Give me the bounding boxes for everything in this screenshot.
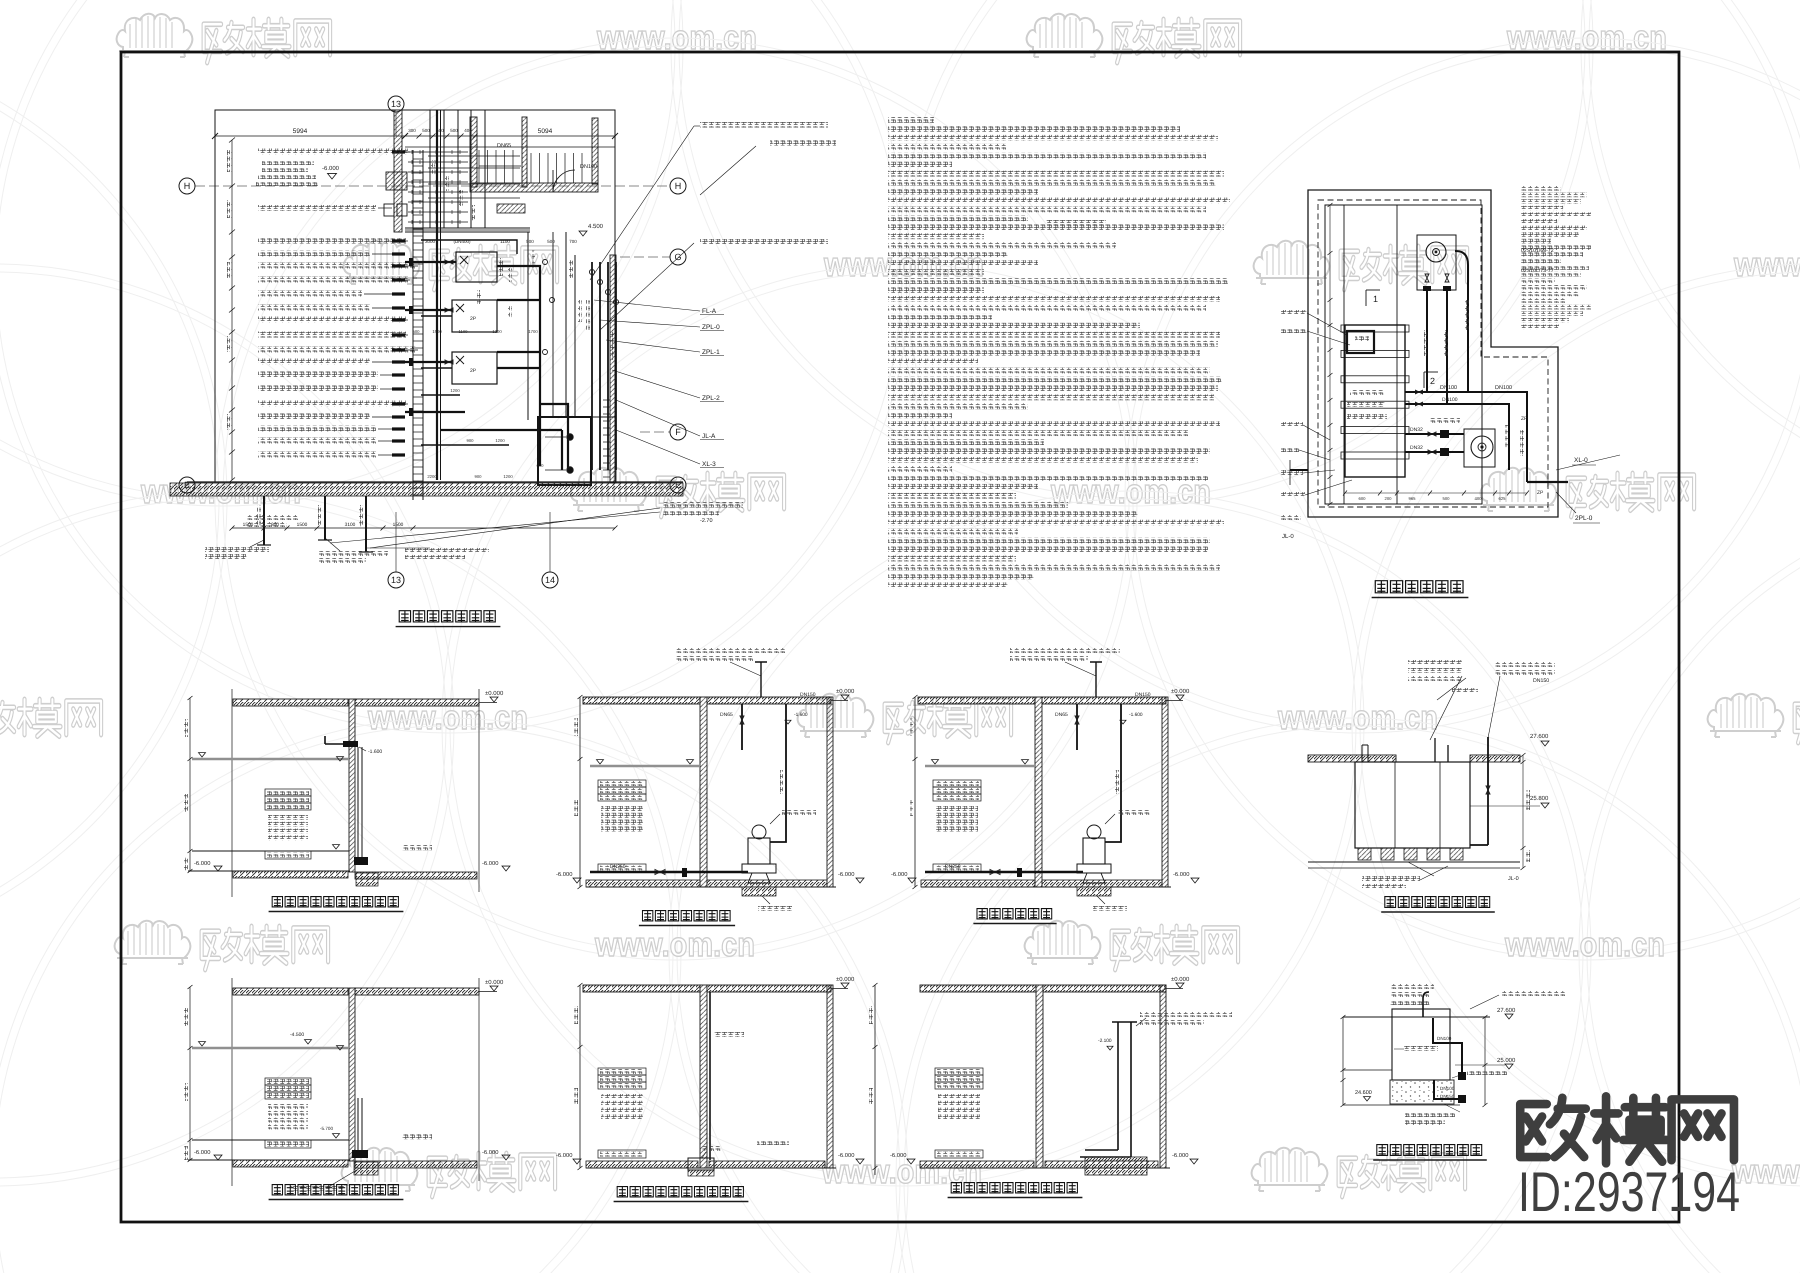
- svg-text:XL-0: XL-0: [1574, 457, 1588, 464]
- dim chain: [189, 987, 191, 1160]
- capacity text: [601, 1101, 643, 1106]
- notes line: [888, 215, 1028, 221]
- leader note: [1390, 984, 1434, 989]
- capacity text: [601, 1114, 643, 1119]
- leader note: [675, 648, 785, 653]
- note vent: [770, 140, 836, 146]
- svg-text:5094: 5094: [538, 128, 553, 135]
- leader note: [1408, 660, 1462, 665]
- water level label: [265, 789, 311, 796]
- label 最低有效水位: [1404, 1046, 1438, 1051]
- pump: [748, 838, 770, 864]
- note DN100: [318, 551, 388, 556]
- top slab: [233, 699, 348, 706]
- svg-text:-4.500: -4.500: [290, 1032, 304, 1038]
- notes line: [888, 493, 1016, 499]
- water level label: [935, 1075, 983, 1082]
- ground hatch: [921, 880, 1035, 887]
- notes line: [888, 529, 1018, 535]
- capacity text: [936, 813, 978, 818]
- additional pipes: [440, 368, 562, 470]
- notes line: [888, 502, 1068, 508]
- label DN32 vert: [1424, 330, 1428, 356]
- riser pipes top: [429, 110, 431, 228]
- wall pad: [386, 172, 407, 190]
- sump room top: [538, 416, 615, 418]
- section title: [951, 1183, 961, 1193]
- grid bubble 13 bottom: [388, 572, 404, 588]
- svg-text:-6.000: -6.000: [556, 1152, 572, 1159]
- top slab: [583, 697, 700, 704]
- pipe label: [258, 251, 370, 257]
- water level label: [265, 796, 311, 803]
- vent tank thick box: [1347, 331, 1374, 353]
- notes line: [888, 448, 1210, 454]
- pipe label: [258, 347, 416, 353]
- east wall: [610, 255, 616, 483]
- ground line: [586, 886, 836, 888]
- notes line: [888, 117, 934, 123]
- dim right: [1484, 1017, 1486, 1105]
- notes line: [888, 224, 1224, 230]
- dim right: [1522, 755, 1524, 868]
- svg-text:-6.000: -6.000: [482, 860, 498, 867]
- watermark logo 欧模网: [1252, 1148, 1465, 1197]
- svg-text:13: 13: [391, 575, 401, 585]
- floor drain 2: [567, 467, 573, 473]
- svg-text:27.600: 27.600: [1530, 733, 1549, 740]
- leader fan: [594, 300, 700, 311]
- label 电气桥架: [714, 1032, 744, 1037]
- water level label: [933, 794, 981, 801]
- notes line: [888, 341, 1218, 347]
- svg-text:965: 965: [1409, 496, 1417, 501]
- svg-text:±0.000: ±0.000: [1171, 688, 1190, 695]
- water line: [192, 1047, 349, 1050]
- notes line: [888, 135, 1218, 141]
- watermark logo 欧模网: [117, 14, 330, 63]
- water level label: [598, 780, 646, 787]
- svg-text:DN100: DN100: [580, 164, 597, 170]
- section title: [642, 911, 652, 921]
- svg-text:500: 500: [450, 128, 458, 133]
- watermark logo 欧模网: [0, 694, 101, 743]
- notes line: [888, 171, 1224, 177]
- svg-text:500: 500: [413, 329, 421, 334]
- tank body: [1392, 1009, 1450, 1080]
- right wall: [1162, 697, 1168, 887]
- watermark circle: [0, 718, 908, 1273]
- big vent duct: [1080, 1022, 1131, 1157]
- title 消防水箱详图: [1375, 581, 1387, 593]
- svg-text:±0.000: ±0.000: [485, 979, 504, 986]
- svg-text:-2.70: -2.70: [700, 518, 713, 524]
- svg-text:-6.000: -6.000: [1173, 871, 1189, 878]
- svg-text:2: 2: [1430, 376, 1435, 386]
- capacity text: [268, 1111, 308, 1116]
- svg-text:JL-0: JL-0: [1282, 533, 1294, 540]
- cable tray: [709, 992, 711, 1160]
- pipe chase ladder: [412, 150, 414, 500]
- svg-text:±0.000: ±0.000: [836, 976, 855, 983]
- pipe label: [258, 332, 406, 338]
- svg-text:JL-A: JL-A: [702, 433, 716, 440]
- svg-text:DN100: DN100: [1495, 385, 1512, 391]
- notes line: [888, 582, 1008, 588]
- top slab: [920, 985, 1036, 992]
- dividing wall: [700, 985, 707, 1168]
- svg-text:1500: 1500: [432, 329, 442, 334]
- svg-text:2P: 2P: [470, 368, 477, 374]
- watermark circle: [0, 0, 910, 733]
- watermark logo 欧模网: [1708, 694, 1800, 743]
- valve: [1416, 402, 1423, 406]
- pipe label: [258, 372, 378, 378]
- notes line: [888, 278, 1228, 284]
- notes line: [888, 394, 1214, 400]
- svg-text:2PL-0: 2PL-0: [1575, 515, 1593, 522]
- section title: [272, 1185, 282, 1195]
- watermark circle: [896, 718, 1800, 1273]
- stair wall bottom: [470, 183, 598, 192]
- tank dims: [1329, 205, 1331, 504]
- notes line: [888, 484, 1038, 490]
- suction pipe and pump: [925, 871, 1083, 873]
- pump: [1083, 838, 1105, 864]
- ground line: [187, 481, 683, 483]
- svg-text:02S10L/73-77: 02S10L/73-77: [1521, 268, 1554, 274]
- grid bubble F: [670, 424, 686, 440]
- label 自动排气阀: [1117, 810, 1151, 815]
- capacity text: [268, 1124, 308, 1129]
- section title: [272, 897, 282, 907]
- tank supports: [1358, 848, 1371, 860]
- notes line: [888, 126, 1180, 132]
- site logo 欧模网 big: [1520, 1096, 1734, 1163]
- svg-text:24.600: 24.600: [1355, 1090, 1372, 1096]
- svg-text:JL-0: JL-0: [1508, 876, 1519, 882]
- right wall: [1160, 985, 1166, 1168]
- section title: [977, 909, 987, 919]
- notes line: [888, 242, 1116, 248]
- tank outlet pipes: [1527, 481, 1568, 483]
- svg-text:-1.600: -1.600: [1129, 712, 1143, 718]
- tank notes: [1521, 186, 1561, 191]
- svg-text:-6.000: -6.000: [556, 871, 572, 878]
- svg-text:-6.000: -6.000: [322, 165, 340, 172]
- notes line: [888, 377, 1222, 383]
- notes line: [888, 233, 984, 239]
- note high: [1046, 220, 1106, 226]
- notes line: [888, 144, 1006, 150]
- tank flange: [1341, 325, 1409, 332]
- svg-text:-1.600: -1.600: [794, 712, 808, 718]
- pipe label: [258, 359, 370, 365]
- svg-text:DN150: DN150: [1533, 678, 1549, 684]
- capacity text: [268, 815, 308, 820]
- room label: [402, 845, 432, 850]
- base hatch: [233, 1160, 348, 1167]
- dividing wall: [349, 699, 355, 872]
- svg-text:500: 500: [1443, 496, 1451, 501]
- capacity text: [938, 1114, 980, 1119]
- pump spec text 2: [700, 239, 828, 245]
- svg-text:1700: 1700: [528, 329, 538, 334]
- tank room inner wall: [1325, 205, 1482, 504]
- riser tag: [431, 160, 435, 176]
- svg-text:-6.000: -6.000: [838, 1152, 854, 1159]
- tank room outer wall: [1308, 190, 1558, 517]
- water level label: [598, 787, 646, 794]
- svg-text:-6.000: -6.000: [194, 860, 210, 867]
- svg-text:-6.000: -6.000: [890, 1152, 906, 1159]
- capacity text: [268, 1104, 308, 1109]
- water level label: [933, 787, 981, 794]
- notes line: [888, 269, 984, 275]
- svg-text:600: 600: [1359, 496, 1367, 501]
- riser DN150 thick: [436, 110, 438, 480]
- svg-text:900: 900: [475, 474, 483, 479]
- base line: [188, 1159, 350, 1161]
- svg-text:DN250: DN250: [610, 864, 626, 870]
- water tank: [1345, 325, 1405, 477]
- svg-text:-6.000: -6.000: [194, 1149, 210, 1156]
- side pipe DN50: [1470, 737, 1488, 845]
- note sump access: [205, 547, 269, 552]
- notes line: [888, 511, 1138, 517]
- ground line: [920, 1167, 1170, 1169]
- svg-text:700: 700: [569, 239, 577, 244]
- dim chain: [189, 698, 191, 871]
- valve: [1428, 432, 1436, 436]
- svg-text:F: F: [675, 427, 681, 437]
- svg-text:02S101/68-72: 02S101/68-72: [1521, 248, 1554, 254]
- dividing wall: [1036, 985, 1043, 1168]
- svg-text:DN65: DN65: [1055, 712, 1068, 718]
- svg-text:5994: 5994: [293, 128, 308, 135]
- watermark logo 欧模网: [115, 921, 328, 970]
- corridor pipes: [408, 151, 468, 153]
- svg-text:3000: 3000: [425, 239, 436, 244]
- watermark circle: [0, 38, 227, 960]
- notes line: [888, 314, 992, 320]
- tank flange: [1341, 401, 1409, 408]
- partition wall: [405, 231, 530, 233]
- capacity text: [268, 822, 308, 827]
- valve: [1445, 274, 1449, 282]
- svg-text:ZP: ZP: [1537, 490, 1544, 496]
- notes line: [888, 466, 952, 472]
- capacity text: [938, 1094, 980, 1099]
- drawing border frame: [121, 52, 1679, 1222]
- dim line: [579, 697, 581, 887]
- grid line H: [195, 185, 670, 187]
- svg-text:DN100: DN100: [1437, 1036, 1452, 1041]
- svg-text:±0.000: ±0.000: [1171, 976, 1190, 983]
- pipe label: [258, 305, 370, 311]
- svg-text:1100: 1100: [458, 329, 468, 334]
- notes line: [888, 189, 1038, 195]
- tank piping: [1427, 265, 1468, 404]
- capacity text: [936, 826, 978, 831]
- svg-text:1500: 1500: [393, 522, 404, 528]
- notes line: [888, 323, 1140, 329]
- svg-text:900: 900: [467, 438, 475, 443]
- water level label: [935, 1068, 983, 1075]
- pump pit: [742, 887, 776, 896]
- svg-text:25.000: 25.000: [1497, 1057, 1516, 1064]
- notes line: [888, 565, 1220, 571]
- svg-text:1100: 1100: [500, 239, 510, 244]
- suction pipe and pump: [590, 871, 748, 873]
- watermark circle: [0, 0, 683, 506]
- notes line: [888, 359, 978, 365]
- svg-text:ZP: ZP: [1521, 416, 1528, 422]
- svg-text:500: 500: [422, 128, 430, 133]
- notes line: [888, 305, 1206, 311]
- svg-text:1200: 1200: [495, 438, 505, 443]
- ground hatch: [586, 880, 700, 887]
- right wall: [827, 697, 833, 887]
- stair wall left: [470, 117, 477, 187]
- watermark logo 欧模网: [571, 468, 784, 517]
- watermark logo 欧模网: [344, 241, 557, 290]
- svg-text:300: 300: [408, 128, 416, 133]
- watermark logo 欧模网: [1025, 921, 1238, 970]
- grid line left: [231, 978, 233, 1186]
- valve: [1425, 274, 1429, 282]
- sump pit room: [538, 417, 591, 485]
- pipe label: [258, 438, 376, 444]
- leader note: [1390, 992, 1430, 997]
- label 电磁阀: [1347, 402, 1385, 407]
- notes line: [888, 403, 1028, 409]
- top slab: [233, 988, 348, 995]
- notes line: [888, 573, 1034, 579]
- svg-text:H: H: [184, 181, 191, 191]
- notes line: [888, 368, 1210, 374]
- watermark circle: [898, 0, 1800, 733]
- svg-text:-5.700: -5.700: [320, 1126, 333, 1131]
- svg-text:±0.000: ±0.000: [485, 690, 504, 697]
- water level label: [935, 1082, 983, 1089]
- note DN150: [405, 548, 489, 553]
- ground hatch band: [170, 483, 683, 496]
- svg-text:1300: 1300: [492, 329, 502, 334]
- svg-text:DN250: DN250: [945, 864, 961, 870]
- plan top dimension line: [215, 135, 615, 137]
- leader valve note: [1467, 1070, 1507, 1075]
- DN200 drain note: [663, 502, 743, 508]
- label 不上人屋面: [1430, 418, 1460, 423]
- svg-text:1200: 1200: [503, 474, 513, 479]
- note air gap: [1362, 876, 1420, 881]
- pipe label: [258, 238, 406, 244]
- ground line: [586, 1167, 836, 1169]
- capacity text: [601, 806, 643, 811]
- capacity text: [268, 1118, 308, 1123]
- svg-text:ID:2937194: ID:2937194: [1518, 1160, 1740, 1223]
- note air gap: [1405, 1112, 1455, 1117]
- title 消防水泵房详图: [399, 611, 410, 622]
- leader note: [1390, 1000, 1430, 1005]
- svg-text:27.600: 27.600: [1497, 1007, 1516, 1014]
- stair wall right: [592, 118, 598, 184]
- pipe label: [258, 149, 408, 155]
- east ladder: [603, 399, 610, 401]
- leader note: [1010, 648, 1120, 653]
- svg-text:DN100: DN100: [1440, 1086, 1455, 1091]
- grid line right: [478, 978, 480, 1181]
- top slab: [918, 697, 1035, 704]
- pipe label: [258, 401, 406, 407]
- grid line right: [478, 689, 480, 892]
- notes line: [888, 475, 1208, 481]
- ground line: [921, 886, 1171, 888]
- leader duct note: [1140, 1012, 1232, 1017]
- svg-text:G: G: [674, 252, 681, 262]
- water line: [925, 765, 1035, 768]
- svg-text:14: 14: [545, 575, 555, 585]
- tank flange: [1341, 452, 1409, 459]
- pipe label: [258, 317, 406, 323]
- pipe label: [258, 277, 408, 283]
- riser cluster: [591, 262, 593, 470]
- underground pipe drops: [263, 496, 265, 545]
- valve: [445, 308, 453, 312]
- watermark logo 欧模网: [342, 1148, 555, 1197]
- right wall: [827, 985, 833, 1168]
- water level label: [265, 1085, 311, 1092]
- grid bubble E left: [179, 477, 195, 493]
- watermark circle: [0, 264, 454, 1186]
- notes line: [888, 439, 1044, 445]
- tank room inner dashed boundary: [1318, 200, 1548, 507]
- fire pump unit 2: [452, 300, 497, 332]
- notes line: [888, 296, 1220, 302]
- grid bubble H right: [670, 178, 686, 194]
- valve: [445, 360, 453, 364]
- title 水箱2-2剖面图: [1377, 1145, 1388, 1156]
- fire pump unit 3: [452, 352, 497, 384]
- watermark circle: [1352, 264, 1800, 1186]
- reservoir info text: [262, 160, 314, 165]
- top line: [1343, 1016, 1490, 1018]
- pump spec text 1: [700, 122, 828, 128]
- pump spec leaders: [590, 126, 694, 280]
- notes line: [888, 556, 1016, 562]
- bottom dimension chain: [232, 527, 615, 529]
- water level label: [598, 794, 646, 801]
- watermark circle: [442, 264, 1364, 1186]
- base line: [188, 870, 350, 872]
- svg-text:DN150: DN150: [1135, 692, 1151, 698]
- dividing wall: [1035, 697, 1042, 887]
- notes line: [888, 207, 1206, 213]
- notes line: [888, 520, 1224, 526]
- piping: [1433, 1018, 1462, 1099]
- wall west: [394, 110, 402, 232]
- notes line: [888, 386, 1218, 392]
- notes line: [888, 350, 1200, 356]
- capacity text: [936, 806, 978, 811]
- svg-text:1500: 1500: [297, 522, 308, 528]
- label 自动排气阀: [782, 810, 816, 815]
- notes line: [888, 412, 952, 418]
- notes line: [888, 538, 1210, 544]
- base hatch: [233, 871, 348, 878]
- svg-text:1200: 1200: [450, 388, 460, 393]
